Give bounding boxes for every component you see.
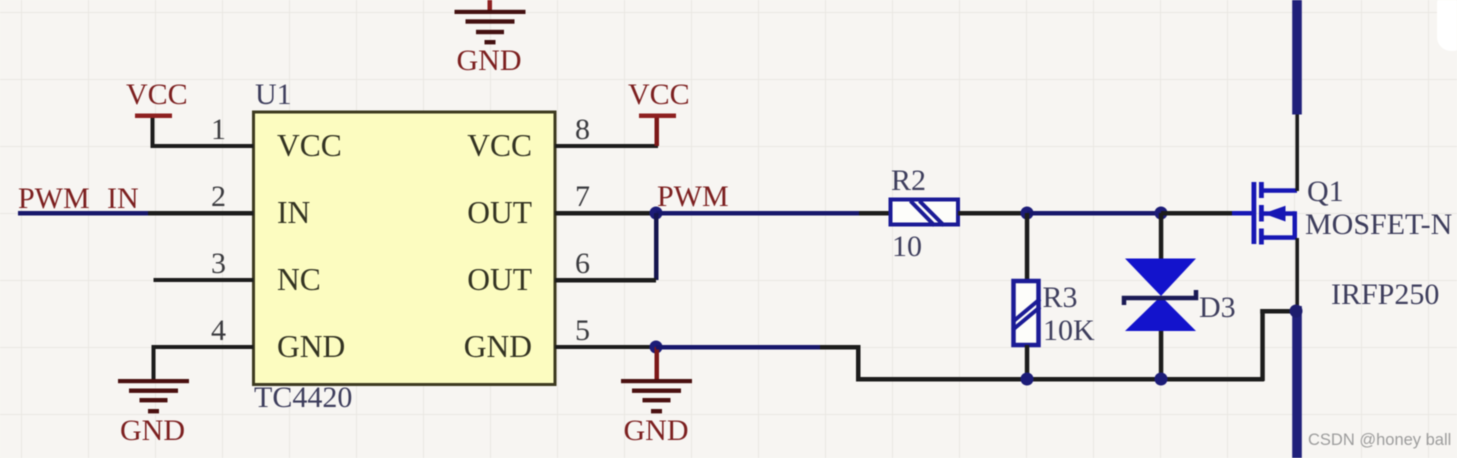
- wire stub top gnd: [488, 0, 493, 12]
- junction pin7: [650, 207, 663, 220]
- wire pin4: [154, 345, 254, 349]
- svg-text:MOSFET-N: MOSFET-N: [1305, 208, 1452, 241]
- svg-text:GND: GND: [277, 329, 345, 364]
- wire pin7: [555, 211, 656, 216]
- svg-text:IN: IN: [277, 195, 310, 230]
- wire pin5: [555, 345, 656, 349]
- svg-text:GND: GND: [457, 44, 522, 77]
- power VCC bar left: [135, 114, 172, 119]
- bus bottom: [1292, 306, 1302, 458]
- body-source vertical: [1293, 211, 1298, 239]
- svg-text:2: 2: [211, 180, 226, 213]
- wire bottom rail: [856, 377, 1264, 382]
- ground left: [118, 379, 189, 413]
- wire to R2: [859, 211, 891, 216]
- svg-text:10: 10: [892, 230, 922, 263]
- wire rail to bus: [1260, 309, 1297, 314]
- svg-text:1: 1: [211, 113, 226, 146]
- svg-text:8: 8: [575, 113, 590, 146]
- svg-text:U1: U1: [255, 78, 292, 111]
- junction R3 bottom: [1021, 373, 1034, 386]
- resistor R2 body: [891, 200, 959, 225]
- svg-text:OUT: OUT: [467, 195, 532, 230]
- wire D3 bottom: [1159, 331, 1164, 379]
- arrow: [1264, 206, 1286, 222]
- IC U1 body: [254, 112, 556, 385]
- svg-text:IN: IN: [107, 182, 139, 215]
- wire pin7 to pin6 vertical: [654, 213, 659, 280]
- wire PWM_IN navy: [18, 211, 150, 216]
- svg-text:GND: GND: [624, 414, 689, 447]
- svg-text:Q1: Q1: [1307, 175, 1344, 208]
- svg-text:GND: GND: [120, 414, 185, 447]
- wire pin2: [148, 211, 254, 216]
- wire source thin black: [1295, 238, 1299, 312]
- svg-text:TC4420: TC4420: [254, 381, 352, 414]
- wire pin1: [151, 144, 254, 148]
- wire PWM navy: [656, 211, 861, 216]
- svg-text:R2: R2: [891, 164, 926, 197]
- svg-text:GND: GND: [464, 329, 532, 364]
- diode D3 (bidirectional TVS): [1124, 259, 1236, 332]
- svg-text:PWM: PWM: [657, 180, 729, 213]
- svg-text:4: 4: [211, 314, 226, 347]
- svg-text:VCC: VCC: [126, 78, 188, 111]
- junction source/bus: [1290, 305, 1303, 318]
- wire pin6: [555, 278, 656, 283]
- svg-text:VCC: VCC: [277, 128, 342, 163]
- wire pin8: [555, 144, 658, 148]
- wire pin4 down: [152, 345, 156, 381]
- resistor R3 body: [1014, 281, 1039, 345]
- junction D3 top node: [1155, 207, 1168, 220]
- svg-text:3: 3: [211, 247, 226, 280]
- svg-text:OUT: OUT: [467, 262, 532, 297]
- channel segments: [1259, 182, 1264, 198]
- wire D3node to gate: [1161, 211, 1232, 216]
- overlay button top-right: [1437, 0, 1457, 51]
- transistor Q1: [1232, 182, 1297, 245]
- wire D3 top: [1159, 213, 1164, 259]
- junction pin5: [650, 341, 663, 354]
- wire gnd riser right: [655, 347, 660, 381]
- junction D3 bottom: [1155, 373, 1168, 386]
- junction R3 top node: [1021, 207, 1034, 220]
- ground top: [455, 10, 526, 45]
- wire R3 top: [1025, 213, 1030, 281]
- svg-text:VCC: VCC: [467, 128, 532, 163]
- svg-text:D3: D3: [1199, 291, 1236, 324]
- wire R3 bottom: [1025, 345, 1030, 379]
- gate bar: [1252, 182, 1257, 244]
- ground right: [621, 379, 692, 413]
- power VCC bar right: [639, 114, 676, 119]
- svg-text:PWM: PWM: [18, 182, 90, 215]
- wire bottom black step: [820, 345, 860, 350]
- wire bottom navy from pin5: [656, 345, 822, 350]
- gate lead: [1232, 211, 1253, 216]
- svg-text:6: 6: [575, 247, 590, 280]
- bus top: [1292, 0, 1302, 115]
- svg-text:R3: R3: [1043, 281, 1078, 314]
- wire pin3 stub: [154, 278, 254, 282]
- wire R2 right: [958, 211, 1027, 216]
- wire step down: [856, 345, 861, 381]
- wire source rail up: [1260, 309, 1265, 381]
- wire vcc riser right: [655, 116, 660, 146]
- drain lead: [1262, 188, 1297, 193]
- svg-text:NC: NC: [277, 262, 321, 297]
- svg-text:7: 7: [575, 180, 590, 213]
- svg-text:IRFP250: IRFP250: [1331, 278, 1439, 311]
- wire vcc riser left: [151, 116, 155, 146]
- resistor R2: [891, 164, 959, 263]
- svg-text:10K: 10K: [1043, 314, 1095, 347]
- svg-text:5: 5: [575, 314, 590, 347]
- resistor R3: [1013, 281, 1096, 347]
- wire drain thin black: [1295, 113, 1299, 191]
- body lead: [1262, 211, 1295, 216]
- svg-text:VCC: VCC: [628, 78, 690, 111]
- svg-text:CSDN @honey ball: CSDN @honey ball: [1308, 431, 1451, 449]
- source lead: [1262, 235, 1297, 240]
- diode D3 body: [1125, 259, 1196, 297]
- wire navy R3node to D3node: [1027, 211, 1161, 216]
